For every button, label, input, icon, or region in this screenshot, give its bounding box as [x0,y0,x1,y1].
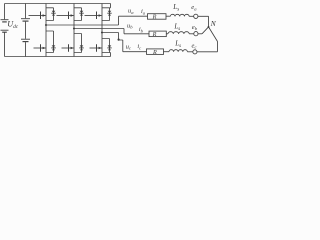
svg-text:ea: ea [191,4,197,11]
diode VD4 (bottom leg1) [52,45,56,47]
inductor L_s (phase c) [169,50,187,52]
wire top DC rail [5,3,111,5]
transistor V1 (top leg1) [46,8,54,21]
diode VD3 (top leg2) [80,11,84,13]
wire [189,33,194,35]
resistor R (phase a) [148,14,167,20]
wire slant c to node N [209,27,218,42]
resistor R (phase b) [149,31,166,36]
svg-text:ua: ua [128,8,134,15]
svg-text:eb: eb [192,24,198,31]
svg-text:ib: ib [139,26,144,33]
svg-text:Ls: Ls [174,39,181,49]
svg-text:ic: ic [137,43,141,50]
svg-text:uc: uc [126,43,131,50]
leg 3 channel vertical [101,4,103,57]
diode VD1 (top leg1) [52,11,56,13]
capacitor C1 (upper DC-link) [25,4,27,19]
svg-text:R: R [152,49,157,56]
capacitor C2 (lower DC-link) [21,38,30,40]
svg-text:Ls: Ls [172,3,179,13]
diode VD2 (bottom leg3) [108,45,112,47]
node leg1 midpoint [45,24,47,26]
node leg2 midpoint [73,27,75,29]
transistor V6 (bottom leg2) [74,34,82,53]
transistor V2 (bottom leg3) [102,39,111,53]
wire [166,33,168,35]
diode VD5 (top leg3) [108,11,112,13]
svg-text:ec: ec [192,42,197,49]
node N star point [208,26,210,28]
wire to N riser [197,42,218,52]
transistor V5 (top leg3) [102,8,111,21]
svg-text:N: N [210,19,217,28]
svg-text:ub: ub [127,22,133,29]
wire [187,51,192,53]
leg 1 channel vertical [45,4,47,57]
svg-text:ia: ia [141,8,146,15]
leg 2 channel vertical [73,4,75,57]
wire leg3 diode to bottom rail [110,53,112,57]
source e_c [193,50,197,54]
transistor V3 (top leg2) [74,8,82,21]
svg-text:Ls: Ls [173,23,180,33]
wire rail drop to leg3 diode [110,4,112,8]
node leg3 midpoint [101,31,103,33]
wire [189,15,193,17]
wire bottom DC rail [5,56,111,58]
wire to N [198,33,202,35]
wire to N [198,16,209,26]
node phase c jog [118,39,120,41]
svg-text:R: R [152,31,157,38]
wire [164,51,170,53]
wire left rail lower [4,32,6,56]
diode VD6 (bottom leg2) [80,45,84,47]
source e_b [194,32,198,36]
wire [166,15,170,17]
svg-text:Udc: Udc [7,20,19,30]
inductor L_s (phase b) [168,32,189,34]
legs drawn by group below [29,4,112,57]
source e_a [194,14,198,18]
wire phase b bus [74,29,149,34]
wire slant b to node N [202,27,209,34]
wire phase c bus [102,33,147,52]
resistor R (phase c) [147,49,164,55]
svg-text:R: R [152,14,157,21]
wire left rail upper [4,4,6,20]
transistor V4 (bottom leg1) [46,31,54,53]
battery U_dc plates [1,19,9,21]
wire phase a bus [46,16,148,25]
inductor L_s (phase a) [170,14,189,16]
